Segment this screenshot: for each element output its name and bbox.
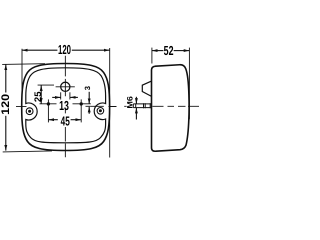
svg-text:120: 120 [58,42,71,57]
svg-text:25: 25 [33,91,44,102]
svg-text:52: 52 [164,43,174,58]
svg-text:13: 13 [59,98,69,113]
svg-text:3: 3 [83,86,92,90]
svg-text:120: 120 [0,94,12,115]
svg-text:45: 45 [61,113,70,128]
svg-text:M6: M6 [126,95,135,108]
